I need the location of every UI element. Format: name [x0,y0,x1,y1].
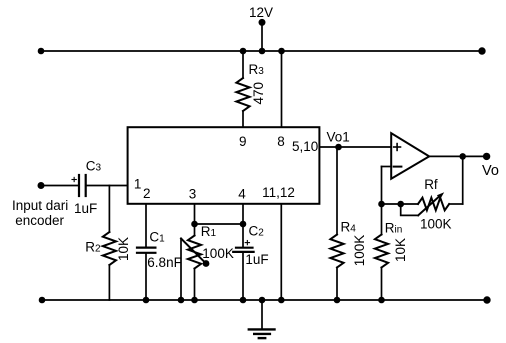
wire op-amp output [429,155,486,157]
node junction R3 on bus [240,48,247,55]
node bottom bus right terminal [483,296,490,303]
wire 12V stub [261,22,263,51]
svg-text:Vo1: Vo1 [327,129,350,144]
wire R1 bottom lead [194,269,196,301]
node junction 12V on bus [259,48,266,55]
wire R2 top lead [108,186,110,233]
op-amp minus input mark [394,166,402,168]
wire pin 8 to top bus [281,51,283,127]
wire R1 wiper diagonal [181,239,206,264]
resistor Rf [418,198,449,211]
wire R3 top lead [242,51,244,78]
svg-text:470: 470 [251,82,266,105]
wire R3 bottom lead to pin 9 [242,111,244,127]
node junction R4 on bottom bus [334,297,341,304]
resistor Rin [375,235,388,268]
svg-text:Rf: Rf [424,177,438,192]
svg-text:10K: 10K [116,237,131,261]
node junction R1 on bottom bus [191,297,198,304]
node junction ground stub on bus [259,297,266,304]
capacitor C3 [79,175,86,196]
wire bottom ground bus [42,299,487,301]
capacitor C1 [137,248,155,253]
svg-text:6.8nF: 6.8nF [147,255,182,270]
svg-text:3: 3 [189,187,197,202]
Rf wiper arrowhead [437,192,444,199]
node bottom bus left terminal [39,297,46,304]
svg-text:1uF: 1uF [74,201,97,216]
wire Rf to output node vertical [462,156,464,204]
op-amp U2 [391,133,429,179]
node junction C2 on bottom bus [240,297,247,304]
C2 plus polarity mark [245,241,249,245]
wire R4 top lead [336,147,338,235]
wire R2 bottom lead [108,265,110,300]
wire R1 top to C2 top [195,223,244,225]
wire pin 5,10 to op-amp (node Vo1) [319,146,391,148]
wire ground stub [261,300,263,329]
node input terminal [38,182,45,189]
wire Rf wiper arrow diagonal [418,195,440,215]
node feedback junction at Rin top [378,201,385,208]
wire input to C3 [41,185,78,187]
wire feedback node to Rf [382,203,419,205]
wire pin 11,12 to ground bus [280,204,282,300]
node Vo output terminal [483,153,490,160]
wire top supply bus [41,50,482,52]
svg-text:100K: 100K [202,246,234,261]
node junction C1 on bottom bus [143,297,150,304]
svg-text:Vo: Vo [482,163,499,179]
svg-text:10K: 10K [393,238,408,262]
wire C2 to ground bus [242,253,244,300]
capacitor C2 [233,248,253,252]
node junction output feedback [459,153,466,160]
svg-text:encoder: encoder [15,213,64,228]
C3 plus polarity mark [72,177,76,181]
node R1 wiper end dot [203,260,210,267]
resistor R1 [188,236,201,269]
wire pin 4 to C2 [242,204,244,247]
wire pin 2 to C1 [145,204,147,247]
node Vo1 junction [335,144,342,151]
wire Rin top lead [381,204,383,235]
svg-text:2: 2 [143,186,151,201]
svg-text:100K: 100K [352,235,367,267]
node junction pin-8 wire on bus [278,48,285,55]
wire op-amp inverting input stub [382,166,392,168]
node junction wiper on bottom bus [178,297,185,304]
svg-text:11,12: 11,12 [262,185,295,200]
wire Rf wiper L link [401,204,419,215]
wire C1 to ground bus [145,254,147,300]
resistor R2 [103,232,116,265]
op-amp plus input mark [394,144,401,151]
node top bus left terminal [38,48,45,55]
node 12V terminal [259,19,266,26]
svg-text:12V: 12V [249,5,273,20]
svg-text:1uF: 1uF [245,252,268,267]
wire Rf right lead [449,203,463,205]
svg-text:4: 4 [238,187,246,202]
wire Rin bottom lead [381,268,383,301]
node junction R1 top [191,221,198,228]
IC U1 box [128,127,320,204]
svg-text:100K: 100K [420,217,452,232]
node junction Rf wiper tap [397,201,404,208]
svg-text:8: 8 [277,134,285,149]
svg-text:1: 1 [134,177,142,192]
node top bus right terminal [478,47,485,54]
svg-text:9: 9 [239,134,247,149]
wire pin 3 lead [194,204,196,236]
wire R4 bottom lead [336,268,338,301]
node junction C2 top [240,221,247,228]
wire R1 wiper vertical [180,239,182,301]
svg-text:5,10: 5,10 [292,139,318,154]
wire inverting input down to feedback node [381,167,383,205]
resistor R4 [330,235,343,268]
wire C3 to pin 1 [87,185,128,187]
node junction pin-11,12 on bottom bus [278,297,285,304]
ground [249,329,275,338]
svg-text:Input dari: Input dari [12,198,68,213]
resistor R3 [236,78,249,111]
node junction Rin on bottom bus [378,297,385,304]
